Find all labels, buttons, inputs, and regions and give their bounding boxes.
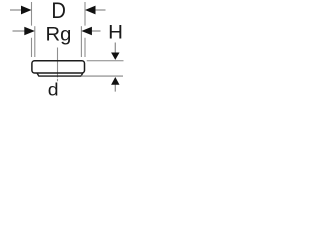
svg-text:H: H bbox=[108, 22, 123, 44]
dimension D tail right bbox=[96, 9, 106, 11]
extension line Rg right bbox=[80, 26, 82, 57]
arrowhead Rg right bbox=[81, 27, 92, 35]
H bottom extension line bbox=[81, 75, 123, 77]
arrowhead Rg left bbox=[24, 27, 35, 35]
extension line Rg left bbox=[34, 26, 36, 57]
part outline: flange bbox=[32, 61, 85, 73]
dimension Rg tail left bbox=[13, 30, 26, 32]
svg-text:d: d bbox=[48, 79, 59, 99]
arrowhead H down bbox=[111, 53, 119, 60]
arrowhead H up bbox=[111, 77, 119, 85]
centerline bbox=[57, 48, 59, 82]
H top extension line bbox=[87, 60, 124, 62]
dimension H tail top bbox=[114, 43, 116, 54]
arrowhead D left bbox=[21, 6, 32, 15]
dimension D tail left bbox=[10, 9, 21, 11]
svg-text:Rg: Rg bbox=[46, 24, 72, 46]
dimension H tail bottom bbox=[114, 84, 116, 92]
extension line D right bbox=[84, 2, 86, 57]
arrowhead D right bbox=[85, 6, 96, 15]
dimension Rg tail right bbox=[90, 30, 100, 32]
extension line D left bbox=[31, 2, 33, 57]
part outline: lower step bbox=[37, 73, 83, 76]
svg-text:D: D bbox=[51, 0, 66, 23]
